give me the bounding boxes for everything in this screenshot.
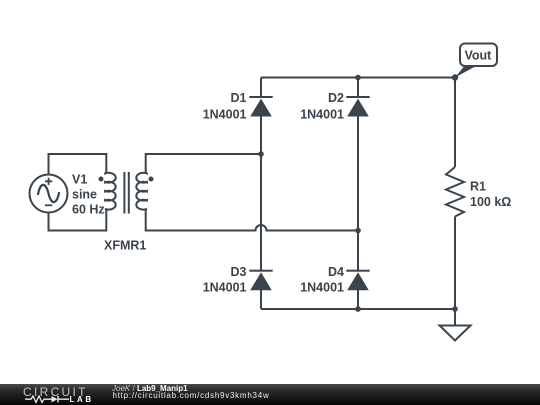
wire D1 anode to D3 cathode: [260, 117, 262, 271]
diode D3: [249, 270, 272, 272]
wire R1 to ground node: [454, 217, 456, 310]
svg-text:1N4001: 1N4001: [203, 280, 247, 294]
transformer primary phase dot: [99, 177, 104, 182]
svg-text:R1: R1: [470, 180, 486, 194]
svg-text:1N4001: 1N4001: [203, 107, 247, 121]
wire D2 anode to D4 cathode: [357, 117, 359, 271]
junction ground node: [452, 306, 458, 312]
wire D3 anode to bottom rail: [260, 290, 262, 309]
svg-text:V1: V1: [72, 173, 87, 187]
svg-text:D1: D1: [231, 91, 247, 105]
svg-text:60 Hz: 60 Hz: [72, 203, 105, 217]
transformer XFMR1 primary coil: [105, 172, 116, 210]
node flag Vout bubble: [460, 44, 497, 67]
Vout flag tail: [455, 66, 477, 78]
junction D4 anode / bottom rail: [355, 306, 361, 312]
diode D2: [346, 96, 369, 98]
wire D2 cathode to top rail: [357, 78, 359, 98]
CircuitLab logo: [23, 385, 88, 399]
wire Vout node to R1: [454, 78, 456, 168]
svg-text:1N4001: 1N4001: [300, 280, 344, 294]
wire V1 bottom to primary: [49, 209, 107, 231]
svg-text:XFMR1: XFMR1: [104, 239, 146, 253]
transformer core: [124, 172, 128, 214]
wire V1 top to primary: [49, 154, 107, 175]
transformer XFMR1 secondary coil: [136, 172, 147, 210]
svg-text:D3: D3: [231, 265, 247, 279]
svg-text:D4: D4: [328, 265, 344, 279]
junction secondary bottom / D2-D4 node: [355, 228, 361, 234]
wire top rail to Vout node: [261, 77, 455, 79]
wire bottom rail to ground node: [261, 308, 455, 310]
diode D1: [249, 96, 272, 98]
svg-text:sine: sine: [72, 188, 97, 202]
transformer secondary phase dot: [149, 177, 154, 182]
wire secondary top: [146, 154, 261, 173]
diode D4: [346, 270, 369, 272]
junction D2 cathode / top rail: [355, 75, 361, 81]
bottom bar: [0, 384, 540, 405]
wire D4 anode to bottom rail: [357, 290, 359, 309]
wire D1 cathode to top rail: [260, 78, 262, 98]
junction Vout node: [452, 74, 458, 80]
wire secondary bottom with hop: [146, 209, 358, 231]
svg-text:Vout: Vout: [465, 49, 493, 63]
svg-text:1N4001: 1N4001: [300, 107, 344, 121]
resistor R1 zigzag: [446, 167, 464, 217]
junction secondary top / D1-D3 node: [258, 151, 264, 157]
svg-text:100 kΩ: 100 kΩ: [470, 195, 511, 209]
svg-text:D2: D2: [328, 91, 344, 105]
ground: [454, 309, 456, 325]
source V1: [30, 175, 68, 213]
